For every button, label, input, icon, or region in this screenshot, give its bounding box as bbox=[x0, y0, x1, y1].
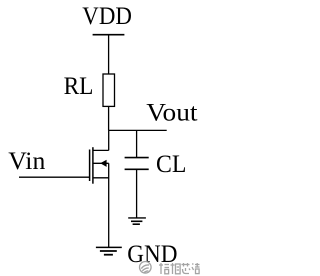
svg-text:RL: RL bbox=[64, 73, 94, 100]
svg-text:VDD: VDD bbox=[82, 3, 132, 30]
svg-text:Vout: Vout bbox=[146, 100, 197, 127]
svg-text:Vin: Vin bbox=[8, 148, 46, 175]
svg-text:CL: CL bbox=[156, 151, 186, 178]
svg-text:GND: GND bbox=[127, 241, 177, 268]
